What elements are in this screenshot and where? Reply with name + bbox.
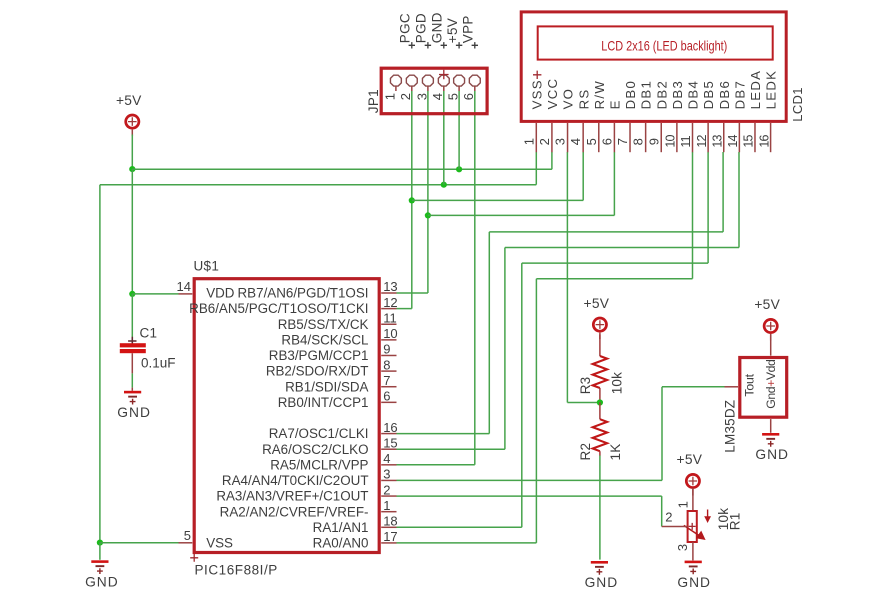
svg-text:VO: VO <box>561 88 576 110</box>
svg-text:RB7/AN6/PGD/T1OSI: RB7/AN6/PGD/T1OSI <box>238 286 369 301</box>
LCD1 pin 13 stub <box>723 123 725 152</box>
LCD1 pin 1 stub <box>535 123 537 152</box>
svg-text:RB4/SCK/SCL: RB4/SCK/SCL <box>281 332 368 347</box>
svg-text:RB3/PGM/CCP1: RB3/PGM/CCP1 <box>269 348 369 363</box>
wire DB4 riser <box>535 279 537 543</box>
wire JP1 pin5 +5V drop <box>458 91 460 169</box>
U$1 pin 8 stub <box>381 370 396 372</box>
svg-text:3: 3 <box>383 467 390 482</box>
U$1 pin 14 VDD stub <box>179 293 193 295</box>
svg-text:R/W: R/W <box>592 80 607 110</box>
svg-text:RA0/AN0: RA0/AN0 <box>313 536 369 551</box>
wire DB6 horizontal to LCD pin13 <box>489 231 723 233</box>
svg-text:LEDA: LEDA <box>748 70 763 110</box>
wire to PIC pin13 RB7 <box>397 292 428 294</box>
svg-text:4: 4 <box>568 138 583 145</box>
U$1 pin 3 stub <box>381 479 396 481</box>
LM35 Gnd pin wire <box>770 419 772 433</box>
svg-text:VSS: VSS <box>529 79 544 109</box>
wire Tout horizontal to LM35 <box>662 386 725 388</box>
capacitor C1 ground tail <box>131 388 133 391</box>
svg-text:5: 5 <box>584 138 599 145</box>
LM35 Tout pin stub <box>725 386 739 388</box>
svg-text:8: 8 <box>631 138 646 145</box>
U$1 pin 10 stub <box>381 339 396 341</box>
svg-text:15: 15 <box>383 435 397 450</box>
net label GND origin cross <box>441 42 447 48</box>
svg-text:15: 15 <box>742 134 756 147</box>
svg-text:10: 10 <box>383 326 397 341</box>
svg-text:LCD1: LCD1 <box>790 87 805 121</box>
LCD1 pin 8 stub <box>645 123 647 152</box>
node junction PGD/E <box>425 212 431 218</box>
U$1 pin 4 stub <box>381 464 396 466</box>
svg-text:GND: GND <box>85 575 119 590</box>
svg-text:RB1/SDI/SDA: RB1/SDI/SDA <box>285 379 368 394</box>
svg-text:10: 10 <box>664 134 678 147</box>
wire +5V horizontal rail to LCD VCC <box>132 168 552 170</box>
wire DB4 horizontal to LCD pin11 <box>536 278 692 280</box>
svg-text:9: 9 <box>383 342 390 357</box>
ground GND (below R2) <box>591 561 608 564</box>
wire PIC pin16 RA7 to riser <box>397 433 490 435</box>
ground GND (below LM35) <box>762 433 779 436</box>
connector JP1 pin 4 circle <box>438 75 449 86</box>
potentiometer R1 wiper arrow <box>684 525 700 536</box>
capacitor C1 bottom lead <box>131 353 133 373</box>
net label PGD origin cross <box>425 42 431 48</box>
resistor R2 bottom lead <box>599 451 601 455</box>
svg-text:RB0/INT/CCP1: RB0/INT/CCP1 <box>278 395 369 410</box>
svg-text:R2: R2 <box>578 443 593 461</box>
svg-text:RA5/MCLR/VPP: RA5/MCLR/VPP <box>270 457 368 472</box>
wire LCD pin6 E drop <box>613 152 615 215</box>
svg-text:Gnd+Vdd: Gnd+Vdd <box>764 359 778 409</box>
wire GND vertical rail at left <box>99 185 101 543</box>
LCD1 pin 14 stub <box>738 123 740 152</box>
wire pot wiper drop <box>661 496 663 526</box>
svg-text:2: 2 <box>383 482 390 497</box>
svg-text:7: 7 <box>383 373 390 388</box>
wire to PIC pin12 RB6 <box>397 308 412 310</box>
svg-text:RA4/AN4/T0CKI/C2OUT: RA4/AN4/T0CKI/C2OUT <box>222 473 369 488</box>
svg-text:DB0: DB0 <box>623 80 638 110</box>
capacitor C1 plates <box>120 343 146 347</box>
svg-text:14: 14 <box>726 134 740 147</box>
svg-text:RB5/SS/TX/CK: RB5/SS/TX/CK <box>278 317 369 332</box>
temperature sensor LM35DZ body <box>740 358 787 418</box>
svg-text:VSS: VSS <box>206 535 233 550</box>
svg-text:VDD: VDD <box>206 286 235 301</box>
svg-text:RB6/AN5/PGC/T1OSO/T1CKI: RB6/AN5/PGC/T1OSO/T1CKI <box>189 301 368 316</box>
wire PIC pin2 RA3/AN3 horizontal <box>397 495 662 497</box>
svg-text:11: 11 <box>679 135 693 147</box>
U$1 pin 15 stub <box>381 448 396 450</box>
wire LCD pin1 VSS drop <box>535 152 537 185</box>
node junction VO divider <box>597 399 603 405</box>
resistor R3 top lead <box>599 335 601 357</box>
LCD1 pin 16 stub <box>770 123 772 152</box>
potentiometer R1 body <box>688 511 697 542</box>
svg-text:Tout: Tout <box>743 373 757 396</box>
svg-text:8: 8 <box>383 357 390 372</box>
capacitor C1 top lead <box>131 338 133 343</box>
LCD1 pin 5 stub <box>598 123 600 152</box>
connector JP1 pin 2 stub <box>411 86 413 91</box>
LCD1 pin 10 stub <box>676 123 678 152</box>
LCD1 pin 11 stub <box>692 123 694 152</box>
U$1 pin 1 stub <box>381 511 396 513</box>
svg-text:2: 2 <box>398 93 413 100</box>
svg-text:R1: R1 <box>728 513 743 531</box>
connector JP1 pin 3 circle <box>422 75 433 86</box>
svg-text:+5V: +5V <box>677 452 703 467</box>
svg-text:DB3: DB3 <box>670 80 685 110</box>
ground GND (below C1) <box>124 391 141 394</box>
svg-text:1: 1 <box>676 501 691 508</box>
svg-text:PGD: PGD <box>414 13 429 43</box>
LCD1 pin 15 stub <box>754 123 756 152</box>
wire PIC pin17 RA0 to riser <box>397 542 537 544</box>
LCD display window box <box>538 26 773 59</box>
connector JP1 pin 5 stub <box>458 86 460 91</box>
origin cross of LCD1 at VSS <box>533 71 541 79</box>
wire DB5 horizontal to LCD pin12 <box>522 262 708 264</box>
LCD1 pin 6 stub <box>613 123 615 152</box>
wire DB6 riser <box>488 232 490 434</box>
wire to PIC pin5 VSS <box>100 542 179 544</box>
U$1 pin 17 stub <box>381 542 396 544</box>
wire LCD pin3 VO drop <box>566 152 568 403</box>
svg-text:18: 18 <box>383 514 397 529</box>
LCD1 pin 12 stub <box>707 123 709 152</box>
potentiometer R1 pin3 lead <box>692 542 694 560</box>
wire DB5 riser <box>521 263 523 527</box>
svg-text:3: 3 <box>675 544 690 551</box>
U$1 pin 9 stub <box>381 354 396 356</box>
U$1 pin 18 stub <box>381 526 396 528</box>
svg-text:DB7: DB7 <box>732 80 747 110</box>
wire Tout riser <box>661 387 663 481</box>
svg-text:PGC: PGC <box>398 13 413 43</box>
net label PGC origin cross <box>409 42 415 48</box>
wire DB7 riser <box>504 248 506 450</box>
U$1 pin 5 VSS stub <box>179 542 193 544</box>
wire JP1 pin6 VPP vertical <box>474 91 476 465</box>
svg-text:5: 5 <box>184 528 191 543</box>
net label +5V origin cross <box>456 42 462 48</box>
svg-text:GND: GND <box>677 575 711 590</box>
potentiometer R1 adjust arrow <box>707 510 709 518</box>
wire PIC pin3 RA4/AN4 horizontal <box>397 479 663 481</box>
U$1 pin 16 stub <box>381 433 396 435</box>
connector JP1 pin 3 stub <box>427 86 429 91</box>
svg-text:E: E <box>608 99 623 109</box>
origin cross of U$1 <box>190 554 198 562</box>
wire +5V vertical from supply to rail <box>131 135 133 170</box>
svg-text:JP1: JP1 <box>366 89 381 113</box>
svg-text:DB6: DB6 <box>717 80 732 110</box>
svg-text:LCD 2x16 (LED backlight): LCD 2x16 (LED backlight) <box>601 39 727 54</box>
U$1 pin 12 stub <box>381 308 396 310</box>
svg-text:LEDK: LEDK <box>764 70 779 110</box>
wire +5V vertical down to C1 <box>131 294 133 338</box>
wire RS horizontal to LCD pin4 <box>412 199 583 201</box>
svg-text:RS: RS <box>576 88 591 109</box>
wire JP1 pin4 GND drop <box>443 91 445 185</box>
svg-text:2: 2 <box>537 138 552 145</box>
node GND junction at PIC VSS tap <box>97 540 103 546</box>
U$1 pin 6 stub <box>381 401 396 403</box>
LCD1 pin 7 stub <box>629 123 631 152</box>
wire E horizontal to LCD pin6 <box>428 214 615 216</box>
svg-text:RB2/SDO/RX/DT: RB2/SDO/RX/DT <box>266 364 369 379</box>
svg-text:RA2/AN2/CVREF/VREF-: RA2/AN2/CVREF/VREF- <box>220 504 369 519</box>
LCD1 pin 9 stub <box>660 123 662 152</box>
svg-text:17: 17 <box>383 529 397 544</box>
wire PIC pin18 RA1 to riser <box>397 526 522 528</box>
svg-text:16: 16 <box>383 420 397 435</box>
svg-text:DB5: DB5 <box>701 80 716 110</box>
potentiometer R1 pin2 stub <box>662 526 688 528</box>
svg-text:+5V: +5V <box>754 297 780 312</box>
svg-text:0.1uF: 0.1uF <box>141 355 176 370</box>
connector JP1 pin 1 stub <box>395 86 397 91</box>
wire DB7 horizontal to LCD pin14 <box>505 247 739 249</box>
ground GND (bottom left) <box>91 560 108 563</box>
wire VO horizontal to R3/R2 divider <box>567 402 600 404</box>
resistor R2 body <box>593 419 607 451</box>
LCD module LCD1 body <box>521 12 786 122</box>
LCD1 pin 3 stub <box>567 123 569 152</box>
svg-text:4: 4 <box>383 451 390 466</box>
svg-text:RA6/OSC2/CLKO: RA6/OSC2/CLKO <box>262 442 368 457</box>
U$1 pin 7 stub <box>381 386 396 388</box>
svg-text:GND: GND <box>585 575 619 590</box>
resistor R3 body <box>593 356 607 388</box>
microcontroller U$1 body <box>194 279 379 553</box>
svg-text:GND: GND <box>430 12 445 43</box>
svg-text:RA3/AN3/VREF+/C1OUT: RA3/AN3/VREF+/C1OUT <box>216 489 368 504</box>
U$1 pin 11 stub <box>381 323 396 325</box>
LCD1 pin 2 stub <box>551 123 553 152</box>
svg-text:6: 6 <box>383 389 390 404</box>
svg-text:5: 5 <box>446 93 461 100</box>
svg-text:12: 12 <box>695 134 709 147</box>
svg-text:6: 6 <box>599 138 614 145</box>
node junction PGC/RS <box>409 197 415 203</box>
svg-text:PIC16F88I/P: PIC16F88I/P <box>195 563 278 578</box>
svg-text:U$1: U$1 <box>194 259 220 274</box>
connector JP1 pin 4 stub <box>443 86 445 91</box>
wire LCD pin13 DB6 drop <box>722 152 724 232</box>
svg-text:10k: 10k <box>610 372 625 394</box>
wire JP1 pin3 PGD vertical <box>427 91 429 293</box>
svg-text:1K: 1K <box>608 444 623 461</box>
svg-text:11: 11 <box>383 310 397 325</box>
net label VPP origin cross <box>472 42 478 48</box>
node junction at PIC VDD tap <box>129 291 135 297</box>
capacitor C1 pin cross <box>128 337 136 345</box>
wire +5V vertical rail down to VDD tap <box>131 169 133 294</box>
svg-text:DB4: DB4 <box>686 80 701 110</box>
svg-text:+5V: +5V <box>116 93 142 108</box>
svg-text:GND: GND <box>755 447 789 462</box>
connector JP1 pin 2 circle <box>406 75 417 86</box>
svg-text:4: 4 <box>430 93 445 100</box>
resistor R3 bottom lead <box>599 388 601 403</box>
potentiometer R1 origin cross <box>689 523 696 530</box>
connector JP1 pin 5 circle <box>454 75 465 86</box>
wire C1 to ground <box>131 373 133 387</box>
LCD1 pin 4 stub <box>582 123 584 152</box>
connector JP1 pin 6 stub <box>474 86 476 91</box>
svg-text:3: 3 <box>553 138 568 145</box>
svg-text:7: 7 <box>615 138 630 145</box>
wire PIC pin15 RA6 to riser <box>397 448 505 450</box>
svg-text:9: 9 <box>646 138 661 145</box>
wire to PIC pin14 VDD <box>132 293 178 295</box>
wire JP1 pin2 PGC vertical <box>411 91 413 309</box>
svg-text:1: 1 <box>382 93 397 100</box>
origin cross of JP1 <box>439 70 449 80</box>
svg-text:DB1: DB1 <box>639 80 654 110</box>
svg-text:2: 2 <box>665 510 672 525</box>
svg-text:VPP: VPP <box>461 15 476 43</box>
node GND junction at JP1 pin4 drop <box>441 182 447 188</box>
svg-text:13: 13 <box>383 279 397 294</box>
U$1 pin 2 stub <box>381 495 396 497</box>
wire LCD pin2 VCC drop <box>551 152 553 169</box>
connector JP1 body <box>381 68 487 114</box>
svg-text:VCC: VCC <box>545 78 560 110</box>
svg-text:3: 3 <box>414 93 429 100</box>
svg-text:LM35DZ: LM35DZ <box>723 400 738 453</box>
LM35 +Vdd pin wire <box>770 335 772 356</box>
connector JP1 pin 6 circle <box>469 75 480 86</box>
node +5V junction at JP1 pin5 drop <box>456 166 462 172</box>
svg-text:C1: C1 <box>140 325 158 340</box>
svg-text:13: 13 <box>710 134 724 147</box>
svg-text:RA1/AN1: RA1/AN1 <box>313 520 369 535</box>
svg-text:+5V: +5V <box>445 18 460 43</box>
ground GND (below R1) <box>685 561 702 564</box>
potentiometer R1 pin1 lead <box>692 488 694 511</box>
svg-text:12: 12 <box>383 295 397 310</box>
U$1 pin 13 stub <box>381 292 396 294</box>
svg-text:14: 14 <box>177 279 191 294</box>
svg-text:DB2: DB2 <box>654 80 669 110</box>
wire R2 to ground <box>599 455 601 559</box>
resistor R2 top lead <box>599 403 601 420</box>
wire LCD pin4 RS drop <box>582 152 584 200</box>
wire GND rail down to ground symbol <box>99 543 101 560</box>
wire LCD pin11 DB4 drop <box>692 152 694 279</box>
wire to PIC pin4 RA5/MCLR <box>397 464 475 466</box>
wire GND horizontal rail to LCD VSS <box>100 184 536 186</box>
svg-text:1: 1 <box>383 498 390 513</box>
wire LCD pin12 DB5 drop <box>707 152 709 263</box>
svg-text:6: 6 <box>461 93 476 100</box>
svg-text:GND: GND <box>117 405 151 420</box>
svg-text:1: 1 <box>521 138 536 145</box>
svg-text:R3: R3 <box>578 377 593 395</box>
wire LCD pin14 DB7 drop <box>738 152 740 248</box>
node +5V junction at rail start <box>129 166 135 172</box>
svg-text:RA7/OSC1/CLKI: RA7/OSC1/CLKI <box>269 426 369 441</box>
svg-text:16: 16 <box>757 134 771 147</box>
svg-text:+5V: +5V <box>584 296 610 311</box>
connector JP1 pin 1 circle <box>390 75 401 86</box>
